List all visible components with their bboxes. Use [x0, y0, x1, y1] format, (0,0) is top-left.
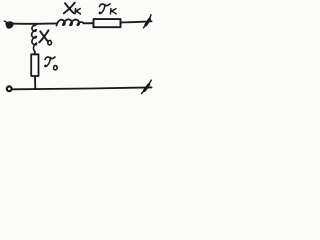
label Xk: [64, 3, 81, 14]
wire top rail left segment: [12, 22, 57, 24]
terminal top-left (input arrow): [4, 21, 13, 28]
terminal top-right (output arrow): [144, 15, 152, 28]
resistor ro (shunt, vertical box): [31, 54, 38, 76]
label Xo: [39, 30, 51, 45]
wire resistor ro to bottom rail: [34, 76, 36, 89]
terminal bottom-right (output arrow): [142, 80, 152, 93]
resistor rk (series, horizontal box): [94, 19, 121, 27]
node junction at shunt branch top: [34, 24, 36, 26]
wire between coil and resistor rk: [84, 22, 94, 24]
wire top rail right segment: [121, 21, 152, 22]
label rk: [99, 4, 116, 14]
inductor Xo (shunt coil, vertical): [32, 24, 37, 52]
label ro: [45, 57, 57, 70]
wire bottom rail: [12, 87, 152, 89]
inductor Xk (series coil): [57, 19, 84, 25]
wire coil to resistor ro: [34, 52, 36, 55]
terminal bottom-left (circle): [7, 86, 12, 91]
